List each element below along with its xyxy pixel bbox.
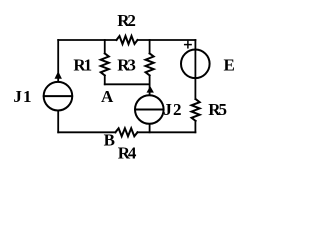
resistor R1 xyxy=(101,53,109,75)
resistor R2 xyxy=(117,36,138,44)
voltage source E circle xyxy=(181,50,210,79)
wire top right segment xyxy=(138,39,196,41)
arrow of J1 xyxy=(55,71,62,79)
wire left bottom stub xyxy=(57,111,59,132)
wire left vertical xyxy=(57,40,59,82)
resistor R4 xyxy=(115,128,137,136)
current source J1 circle xyxy=(44,82,73,111)
current source J1 bar xyxy=(44,95,72,97)
svg-text:R1: R1 xyxy=(73,55,92,74)
wire bottom segment right xyxy=(138,131,196,133)
wire J2 bottom stub xyxy=(149,124,151,132)
wire R3 top stub xyxy=(149,40,151,53)
svg-text:R2: R2 xyxy=(117,11,136,30)
plus sign of E xyxy=(185,41,191,47)
svg-text:E: E xyxy=(224,55,235,74)
svg-text:R3: R3 xyxy=(117,55,136,74)
wire R5 bottom stub xyxy=(194,121,196,132)
wire right vertical through E xyxy=(194,40,196,99)
svg-text:A: A xyxy=(101,87,114,106)
wire top left segment xyxy=(58,39,116,41)
svg-text:R5: R5 xyxy=(208,100,227,119)
svg-text:J2: J2 xyxy=(163,100,181,119)
svg-text:J1: J1 xyxy=(13,87,31,106)
resistor R5 xyxy=(192,99,200,121)
resistor R3 xyxy=(146,53,154,75)
wire R3 to J2 xyxy=(149,75,151,94)
svg-text:R4: R4 xyxy=(118,144,137,163)
wire node A xyxy=(105,83,150,85)
svg-text:B: B xyxy=(104,130,115,149)
wire bottom segment left xyxy=(58,131,115,133)
arrow of J2 xyxy=(147,86,154,93)
wire R1 top stub xyxy=(104,40,106,53)
current source J2 bar xyxy=(135,109,163,111)
current source J2 circle xyxy=(135,95,164,124)
wire R1 bottom stub xyxy=(104,75,106,84)
